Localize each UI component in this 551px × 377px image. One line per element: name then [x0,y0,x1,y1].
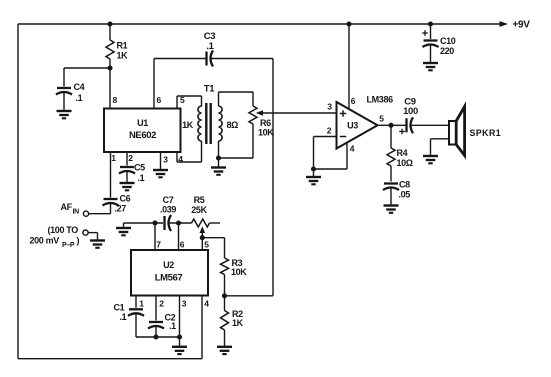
wire AF terminal to C6 [89,204,111,214]
wire secondary bottom to R6 bottom [219,124,254,158]
wire left vertical supply feed [17,24,19,359]
wire to ground U3 [313,169,315,177]
ground below speaker [423,156,438,163]
capacitor C1 [114,303,145,323]
svg-text:R6: R6 [260,118,271,128]
pin 6 label U2 [180,240,185,250]
svg-text:.1: .1 [120,312,127,322]
svg-text:2: 2 [159,299,164,309]
wire U1 pin 6 up to C3 [153,59,155,109]
node junction top rail / R1 [107,21,112,26]
wire R4 to C8 [390,166,392,182]
pin 5 label U2 [204,240,209,250]
svg-text:C5: C5 [134,163,145,173]
svg-text:6: 6 [157,95,162,105]
capacitor C4 [56,82,85,103]
svg-text:.1: .1 [169,321,176,331]
wire R2 to ground [224,330,226,347]
node junction U2 pin 7 [152,220,157,225]
pin 5 label U1 [180,95,185,105]
wire to ground T1 [218,158,220,168]
node junction output / R4 / C9 [388,123,393,128]
svg-text:): ) [77,236,80,246]
pin 3 label U1 [163,155,168,165]
wire rail to C10 [430,24,432,39]
ground below C10 [423,63,438,70]
wiper arrow R5 [200,226,206,250]
svg-text:100: 100 [403,106,418,117]
wire C4 branch [64,68,110,87]
svg-text:8Ω: 8Ω [227,120,239,130]
svg-text:+9V: +9V [513,20,531,31]
wire C7 right [169,222,192,224]
capacitor C3 [204,31,216,67]
resistor R3 [221,258,248,277]
svg-text:R4: R4 [397,148,408,158]
pin 4 label U3 [350,144,355,154]
svg-text:3: 3 [327,102,332,112]
wire T1 primary top lead [201,96,203,107]
svg-text:4: 4 [204,299,209,309]
wire R5 right stub [210,222,221,224]
wire R3 bottom [224,275,226,296]
svg-text:P–P: P–P [62,242,75,249]
svg-text:8: 8 [113,95,118,105]
op-amp U3 LM386 [337,102,378,149]
ground below C4 [57,111,72,118]
transformer T1 secondary winding 8&#937; [219,106,239,141]
svg-text:10Ω: 10Ω [397,158,413,168]
svg-text:10K: 10K [258,128,274,138]
capacitor C5 [119,163,145,184]
wire U3 pin 2 [314,136,337,138]
wire C7 left to ground stub [124,223,164,228]
wire R6 wiper to U3 pin 3 [262,112,337,114]
node junction R5 wiper / R3 [200,235,205,240]
resistor R2 [221,309,244,330]
wire U2 pin 2 to C2 [155,296,157,321]
svg-text:4: 4 [350,144,355,154]
wire speaker return [431,139,450,156]
pin 1 label U1 [111,153,116,163]
svg-text:C10: C10 [440,36,456,46]
wire source terminal to ground [88,233,97,241]
wire C1 bottom run [136,313,180,337]
node junction R1 / C4 / U1 pin 8 [107,65,112,70]
ground below C8 [384,206,399,213]
node junction U2 pin 6 [176,220,181,225]
svg-text:3: 3 [182,299,187,309]
transformer T1 core [206,103,210,144]
wire C5 to ground [126,171,128,183]
svg-text:IN: IN [73,209,80,216]
svg-text:1K: 1K [232,318,244,328]
svg-text:3: 3 [163,155,168,165]
svg-text:SPKR1: SPKR1 [470,128,502,138]
wire C2 to bottom run [155,326,157,337]
node +9V arrow terminal [500,20,531,31]
wire pin 2 loop down [313,137,315,170]
wire U1 pin 1 to C6 [110,152,112,198]
svg-text:1K: 1K [182,120,194,130]
svg-text:6: 6 [180,240,185,250]
node junction C2 / bottom run [153,334,158,339]
node junction pin2/pin4 ground [311,166,316,171]
svg-text:C6: C6 [120,194,131,204]
pin 7 label U2 [156,240,161,250]
capacitor C9 [399,97,418,135]
pin 1 label U2 [139,299,144,309]
wire pin6 node to C3 [154,58,206,60]
node junction R3 / R2 / C3 return [222,293,227,298]
capacitor C10 [422,30,456,56]
ground below U1 pin 3 [153,170,168,177]
svg-text:C7: C7 [163,195,174,205]
ground below T1 secondary [211,168,226,175]
svg-text:C8: C8 [399,180,410,190]
pin 6 label U3 [351,96,356,106]
wire U2 pin 7 [154,223,156,250]
potentiometer R6 [249,106,274,138]
pin 3 label U3 [327,102,332,112]
capacitor C6 [103,194,131,214]
pin 4 label U1 [178,154,183,164]
svg-text:LM386: LM386 [367,95,394,105]
node source terminal [83,230,88,235]
wire C4 to ground [63,92,65,111]
svg-text:C4: C4 [74,82,85,92]
wire C9 to speaker [411,124,449,126]
resistor R1 [106,40,128,61]
ground left of C7 [116,228,131,235]
wire bottom rail to U2 pin 4 [18,358,202,360]
wire U3 pin 6 to +9V rail [348,24,350,110]
wire C8 to ground [390,188,392,206]
wire wiper node to R3 top [202,238,224,258]
wire U2 pin 6 [178,223,180,250]
pin 4 label U2 [204,299,209,309]
transformer T1 primary winding 1K [182,106,201,141]
wire T1 primary bottom to U1 pin 4 [177,141,202,162]
svg-text:R1: R1 [117,41,128,51]
ground below R2 [217,347,232,354]
svg-text:200 mV: 200 mV [30,236,60,246]
ground below U2 pin 3 [172,347,187,354]
svg-text:U3: U3 [347,121,358,131]
wire U2 pin 3 to ground [179,296,181,347]
wire U1 pin 5 to T1 primary top [177,96,202,109]
svg-text:.05: .05 [399,190,411,200]
svg-text:U1: U1 [137,118,148,128]
svg-text:(100 TO: (100 TO [48,225,79,235]
wire T1 secondary top to R6 top [219,92,254,106]
pin 2 label U2 [159,299,164,309]
wire U2 pin 4 down to bottom rail [201,296,203,359]
op-amp U2 LM567 tone decoder IC body [131,250,208,296]
node AF input terminal [83,211,88,216]
wire C3 down to R2/R3 node [272,59,274,296]
wire U3 pin 4 down [314,143,348,170]
pin 3 label U2 [182,299,187,309]
svg-text:NE602: NE602 [129,130,156,141]
capacitor C7 [160,195,176,231]
capacitor C2 [148,312,176,331]
svg-text:1: 1 [139,299,144,309]
svg-text:U2: U2 [163,260,174,270]
svg-text:.1: .1 [138,173,145,183]
svg-text:.27: .27 [115,204,127,214]
speaker SPKR1 [449,107,501,156]
wiper arrow R6 [256,110,263,116]
wire U1 pin 8 [109,68,111,109]
wire U1 pin 2 to C5 [126,152,128,166]
svg-text:1K: 1K [117,51,129,61]
svg-text:10K: 10K [231,267,247,277]
wire across to R3/R2 junction [225,295,274,297]
svg-text:R5: R5 [194,195,205,205]
ground below C5 [120,183,135,190]
svg-text:5: 5 [379,114,384,124]
svg-text:25K: 25K [191,205,207,215]
svg-text:T1: T1 [204,84,215,95]
svg-text:1: 1 [111,153,116,163]
wire C10 to ground [430,45,432,64]
svg-text:.1: .1 [206,41,214,52]
svg-text:7: 7 [156,240,161,250]
ground below source terminal [90,241,105,248]
wire U3 output [377,124,406,126]
pin 8 label U1 [113,95,118,105]
svg-text:.1: .1 [76,93,83,103]
svg-text:5: 5 [204,240,209,250]
node junction secondary bottom / ground / R6 bottom [216,155,221,160]
svg-text:2: 2 [327,126,332,136]
pin 6 label U1 [157,95,162,105]
op-amp U1 NE602 mixer IC body [104,109,181,153]
ground below U3 [306,177,321,184]
label AF IN [61,202,80,216]
wire +9V top supply rail [18,23,501,25]
svg-text:LM567: LM567 [155,273,183,284]
potentiometer R5 [191,195,209,227]
pin 2 label U3 [327,126,332,136]
svg-text:220: 220 [440,46,454,56]
resistor R4 [387,148,413,168]
wire R1 top [109,24,111,40]
node junction rail / U3 pin 6 [346,21,351,26]
svg-text:AF: AF [61,202,73,212]
label T1 [204,84,215,95]
svg-text:2: 2 [128,153,133,163]
wire C3 right run [211,58,273,60]
wire R2 top [224,296,226,311]
wire T1 secondary bottom [218,141,220,158]
label LM386 [367,95,394,105]
wire U2 pin 1 to C1 [135,296,137,308]
wire output to R4 [390,125,392,148]
pin 2 label U1 [128,153,133,163]
svg-text:6: 6 [351,96,356,106]
capacitor C8 [383,180,410,200]
wire R1 bottom to node [109,59,111,68]
node junction pin3 / C1 C2 return [177,334,182,339]
label source level [30,225,80,249]
wire U1 pin 3 to ground [160,152,162,170]
svg-text:C1: C1 [114,303,125,313]
pin 5 label U3 [379,114,384,124]
node junction rail / C10 [428,21,433,26]
svg-text:.039: .039 [160,205,176,215]
